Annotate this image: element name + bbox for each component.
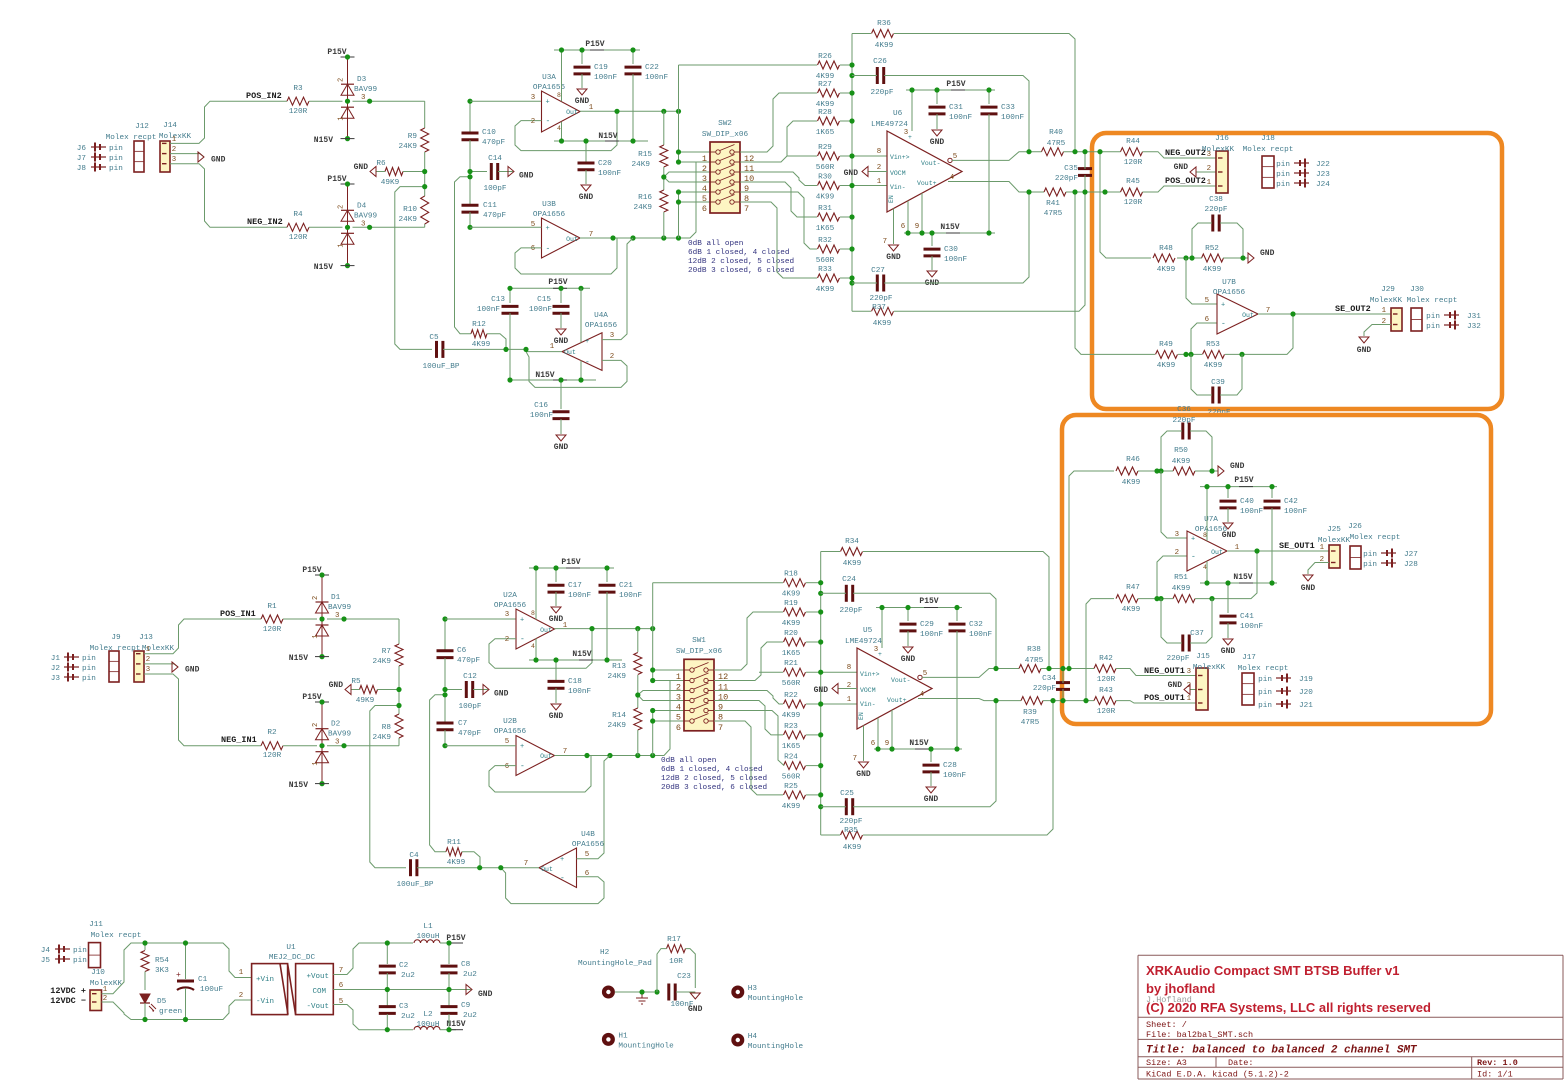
resistor R3 [287, 85, 309, 116]
wire R15 to R16 [663, 167, 665, 190]
svg-text:6: 6 [871, 740, 875, 748]
svg-text:220pF: 220pF [1033, 685, 1056, 693]
svg-text:NEG_IN2: NEG_IN2 [247, 217, 283, 227]
svg-text:R38: R38 [1027, 646, 1041, 654]
svg-text:GND: GND [930, 138, 945, 147]
wire C18 to GND [555, 688, 557, 703]
svg-text:4K99: 4K99 [843, 560, 862, 568]
wire R31 right [840, 216, 852, 218]
ground at C29 [901, 647, 916, 664]
svg-text:GND: GND [688, 1005, 703, 1014]
capacitor C37 [1166, 630, 1204, 663]
ground at C19 [575, 89, 590, 106]
svg-text:6: 6 [339, 982, 343, 990]
svg-text:GND: GND [575, 97, 590, 106]
junctions C column [467, 99, 472, 230]
svg-text:pin: pin [1276, 161, 1290, 169]
ground at J14 [198, 152, 226, 165]
svg-text:pin: pin [73, 957, 87, 965]
svg-text:R46: R46 [1126, 456, 1140, 464]
wire U4B feedback [501, 868, 604, 904]
wire N15V rail U7A [1200, 582, 1277, 584]
capacitor C38 [1204, 196, 1227, 232]
power P15V output [446, 934, 465, 943]
svg-text:R29: R29 [818, 144, 832, 152]
pin number U2B.6 [505, 763, 509, 771]
svg-text:3: 3 [531, 94, 535, 102]
wire GND to R6 [376, 171, 385, 173]
junctions R46 R50 [1154, 468, 1214, 473]
capacitor C39 [1207, 379, 1230, 417]
pin number U7B.5 [1205, 297, 1209, 305]
pin J27 [1363, 549, 1418, 560]
svg-text:4K99: 4K99 [873, 320, 892, 328]
svg-text:+: + [908, 134, 912, 141]
svg-text:C39: C39 [1211, 379, 1225, 387]
wire R53 right [1225, 353, 1248, 355]
svg-text:100nF: 100nF [1240, 623, 1263, 631]
resistor R25 [782, 783, 806, 811]
svg-text:SW2: SW2 [718, 120, 732, 128]
svg-text:R50: R50 [1174, 447, 1188, 455]
power N15V rail U4A [535, 371, 567, 380]
power P15V at D3 [327, 48, 354, 57]
wire N15V rail U3A [554, 140, 648, 142]
wire POS to R7 [398, 619, 400, 644]
svg-text:120R: 120R [1124, 199, 1143, 207]
ground at C16 [554, 435, 569, 452]
power P15V rail U4A [548, 278, 567, 288]
power N15V rail U3A [598, 132, 619, 141]
svg-text:+: + [1191, 536, 1195, 544]
svg-text:J3: J3 [51, 675, 61, 683]
svg-text:2: 2 [239, 992, 243, 1000]
DIP switch SW2 [702, 120, 754, 214]
wire SW1 pin6 [653, 720, 684, 722]
svg-text:VOCM: VOCM [890, 170, 906, 177]
pin number U6.7 [883, 238, 887, 246]
capacitor C2 [379, 962, 415, 980]
svg-text:100nF: 100nF [1001, 114, 1024, 122]
svg-text:1: 1 [1320, 544, 1325, 552]
capacitor C26 [870, 58, 893, 97]
wire U5 pin9 down [891, 710, 893, 749]
svg-text:49K9: 49K9 [356, 697, 375, 705]
resistor R46 [1116, 456, 1141, 487]
wire R52 to GND [1223, 257, 1248, 259]
svg-text:MolexKK: MolexKK [1193, 664, 1226, 672]
junctions U2B out [584, 753, 655, 758]
junctions bank column [849, 62, 854, 285]
wire C24 left [821, 592, 846, 594]
net label NEG_IN1 [221, 735, 257, 745]
svg-text:J7: J7 [77, 155, 87, 163]
svg-text:6dB 1 closed, 4 closed: 6dB 1 closed, 4 closed [688, 249, 790, 257]
svg-text:File: bal2bal_SMT.sch: File: bal2bal_SMT.sch [1146, 1030, 1253, 1040]
connector J15 [1193, 653, 1226, 710]
wire C12 to GND [473, 689, 488, 691]
pin J6 [77, 143, 123, 154]
svg-text:Molex recpt: Molex recpt [1350, 534, 1401, 542]
resistor R40 [1042, 129, 1066, 156]
pin J5 [41, 955, 87, 966]
wire C22 to N15V [632, 74, 634, 141]
wire U4A out [526, 351, 562, 353]
wire P15V rail U3A [554, 49, 640, 51]
wire R27 right [840, 92, 852, 94]
svg-text:470pF: 470pF [458, 730, 481, 738]
svg-text:R17: R17 [667, 936, 681, 944]
wire [309, 226, 343, 228]
svg-text:H3: H3 [748, 985, 758, 993]
wire J14 pin2 to GND [170, 154, 204, 157]
svg-text:Vin-: Vin- [860, 701, 876, 708]
wire C3 down [386, 1014, 388, 1030]
resistor R12 [471, 321, 491, 349]
svg-text:Out: Out [540, 753, 552, 760]
svg-text:J27: J27 [1404, 551, 1418, 559]
wire [283, 745, 317, 747]
svg-text:7: 7 [744, 204, 749, 214]
svg-text:+Vout: +Vout [306, 973, 329, 981]
wire to R29 [787, 155, 817, 157]
svg-text:Vout-: Vout- [891, 677, 911, 684]
svg-text:N15V: N15V [535, 371, 554, 380]
svg-text:C20: C20 [598, 160, 612, 168]
wire R37 right loop [894, 192, 1085, 311]
pin number U5.8 [847, 664, 851, 672]
wire C37 left loop [1161, 599, 1182, 643]
svg-text:GND: GND [549, 712, 564, 721]
label 12VDC+ [50, 986, 86, 996]
wire R45 to J16 pin1 [1143, 186, 1217, 192]
svg-text:2u2: 2u2 [401, 1013, 415, 1021]
svg-text:470pF: 470pF [483, 212, 506, 220]
wire rail to R54 [144, 943, 146, 950]
svg-text:220pF: 220pF [839, 818, 862, 826]
wire U5 pin7 down [863, 726, 865, 762]
wire C5 to U4A out [443, 348, 526, 350]
wire NEG_OUT1 to R46 [1069, 471, 1114, 669]
wire SW2 pin11 to R28 [740, 121, 817, 162]
net label POS_IN1 [220, 609, 256, 619]
wire C34 bottom lead [1062, 689, 1064, 701]
junctions R48 R52 [1183, 255, 1245, 260]
wire NEG to U2B pin5 [445, 745, 516, 747]
diode D4 [338, 181, 378, 268]
wire C2 to C3 [386, 973, 388, 1006]
wire R12 to out node [487, 334, 506, 350]
pin number U6.8 [877, 148, 881, 156]
wire U1 COM to GND [333, 989, 471, 991]
resistor R24 [782, 754, 806, 782]
op-amp U7A [1187, 516, 1240, 571]
svg-text:4K99: 4K99 [1203, 266, 1222, 274]
svg-text:6: 6 [676, 723, 681, 733]
net label SE_OUT2 [1335, 304, 1371, 314]
pin number U5.4 [920, 691, 925, 699]
svg-text:GND: GND [901, 655, 916, 664]
wire [327, 745, 399, 747]
svg-text:J4: J4 [41, 947, 51, 955]
wire U4A pin3 up [602, 238, 633, 340]
svg-text:100nF: 100nF [949, 114, 972, 122]
wire [327, 618, 399, 620]
diode D3 [338, 54, 378, 141]
svg-text:N15V: N15V [598, 132, 617, 141]
pin J28 [1363, 559, 1418, 570]
wire to C2 [386, 943, 388, 964]
svg-text:C4: C4 [409, 852, 419, 860]
svg-text:GND: GND [1222, 531, 1237, 540]
wire R11 to out node [462, 852, 480, 868]
svg-text:7: 7 [883, 238, 887, 246]
pin number U7A.2 [1175, 549, 1179, 557]
wire bank right at 794.9 [806, 794, 821, 796]
diode D2 [312, 699, 351, 786]
resistor R41 [1044, 188, 1066, 218]
wire U7B out to J29 [1258, 313, 1391, 315]
svg-text:GND: GND [886, 253, 901, 262]
ground COM [466, 985, 493, 1000]
wire C30 to GND [931, 256, 933, 270]
svg-text:R10: R10 [403, 206, 417, 214]
svg-text:0dB all open: 0dB all open [661, 757, 716, 765]
svg-text:24K9: 24K9 [608, 673, 627, 681]
highlight box channel 1 output [1062, 415, 1491, 724]
svg-text:560R: 560R [782, 680, 801, 688]
resistor R47 [1116, 584, 1141, 614]
wire C34 top lead [1062, 669, 1064, 684]
svg-text:R49: R49 [1159, 341, 1173, 349]
svg-text:C8: C8 [461, 961, 471, 969]
svg-text:P15V: P15V [561, 558, 580, 567]
svg-text:P15V: P15V [919, 597, 938, 606]
ground at C18 [549, 704, 564, 721]
resistor R37 [872, 304, 894, 328]
capacitor C42 [1264, 498, 1308, 516]
pin J24 [1276, 179, 1330, 190]
resistor R1 [261, 603, 283, 634]
power P15V at D4 [327, 175, 354, 184]
svg-text:100uF: 100uF [200, 986, 223, 994]
svg-text:6: 6 [901, 223, 905, 231]
junctions R column [422, 169, 427, 189]
svg-text:1K65: 1K65 [782, 743, 801, 751]
pin number U5.2 [847, 682, 851, 690]
wire [353, 100, 425, 102]
wire R14 to U2B out [637, 730, 639, 756]
svg-text:4K99: 4K99 [1157, 362, 1176, 370]
svg-text:8: 8 [877, 148, 881, 156]
svg-text:Out: Out [566, 236, 578, 243]
svg-text:R18: R18 [784, 571, 798, 579]
svg-text:100nF: 100nF [594, 74, 617, 82]
svg-text:J29: J29 [1381, 286, 1395, 294]
svg-text:1: 1 [847, 696, 852, 704]
wire U3A V- pin4 [561, 122, 563, 141]
svg-text:GND: GND [554, 443, 569, 452]
wire rail to C17 [555, 568, 557, 582]
svg-text:6: 6 [1205, 316, 1209, 324]
note gain table bottom [661, 757, 767, 792]
pin number U7B.6 [1205, 316, 1209, 324]
svg-text:100nF: 100nF [1284, 508, 1307, 516]
svg-text:1: 1 [1207, 179, 1212, 187]
resistor R18 [782, 571, 806, 599]
wire [309, 100, 343, 102]
resistor R50 [1172, 447, 1195, 475]
ground at C14 [508, 167, 534, 181]
wire L1 to P15V [440, 942, 456, 944]
wire U2A feedback loop [489, 629, 592, 669]
svg-text:C33: C33 [1001, 104, 1015, 112]
svg-text:OPA1656: OPA1656 [533, 84, 566, 92]
note gain table top [688, 240, 794, 275]
svg-text:POS_OUT2: POS_OUT2 [1165, 176, 1206, 186]
wire U4B pin5 up [577, 756, 611, 859]
ground at R52 [1248, 249, 1275, 263]
wire bank right at 765.6 [806, 765, 821, 767]
title text id [1477, 1070, 1513, 1080]
net label NEG_OUT1 [1144, 666, 1185, 676]
capacitor C16 [530, 402, 570, 420]
svg-text:100uF_BP: 100uF_BP [423, 363, 460, 371]
svg-text:+: + [1221, 302, 1225, 310]
svg-text:1: 1 [146, 646, 151, 654]
pin number U6.4 [950, 174, 955, 182]
svg-text:pin: pin [1258, 702, 1272, 710]
wire to U3A pin3 [470, 100, 542, 102]
wire U2B output [555, 755, 659, 757]
wire U1 +Vout to L1 [333, 943, 387, 975]
wire C1 to rail [185, 988, 187, 1020]
wire column to C5 [395, 187, 432, 350]
pin number U6.9 [915, 223, 919, 231]
pin number U5.5 [923, 670, 927, 678]
svg-text:R7: R7 [382, 648, 392, 656]
power N15V at D1 [289, 654, 329, 663]
svg-text:4K99: 4K99 [782, 620, 801, 628]
wire R40 to R44 [1064, 151, 1121, 153]
svg-text:Out: Out [1211, 549, 1223, 556]
pin J2 [51, 663, 96, 674]
wire R46 to R50 [1138, 470, 1173, 472]
svg-text:N15V: N15V [909, 739, 928, 748]
wire C21 to N15V [606, 592, 608, 660]
wire R39 to R43 [1043, 700, 1094, 702]
ground at C17 [549, 607, 564, 624]
svg-text:C31: C31 [949, 104, 963, 112]
svg-text:5: 5 [676, 713, 681, 723]
capacitor C9 [441, 1002, 478, 1020]
resistor R44 [1121, 138, 1143, 167]
svg-text:7: 7 [524, 860, 528, 868]
wire SW2 pins56 to out [678, 192, 680, 238]
wire N15V rail U5 [874, 748, 962, 750]
wire U6 pin3 to P15V [911, 90, 913, 131]
wire POS_OUT1 to R47 [1086, 599, 1114, 701]
svg-text:EN: EN [888, 195, 895, 203]
title block frame [1138, 955, 1563, 1079]
resistor R19 [782, 600, 806, 628]
svg-text:560R: 560R [816, 257, 835, 265]
pin numbers J29 [1382, 307, 1387, 326]
svg-text:U5: U5 [863, 627, 873, 635]
svg-text:100nF: 100nF [529, 306, 552, 314]
svg-text:GND: GND [1174, 163, 1189, 172]
pin number U4A.1 [550, 343, 555, 351]
connector J26 [1348, 523, 1400, 569]
wire C35 bottom lead [1084, 175, 1086, 192]
wire C16 to GND [560, 419, 562, 434]
wire J10 pin2 to U1 -Vin [102, 1000, 252, 1020]
ground at C30 [925, 271, 940, 288]
svg-text:C29: C29 [920, 621, 934, 629]
svg-text:+: + [546, 225, 550, 233]
svg-text:2u2: 2u2 [463, 1012, 477, 1020]
svg-text:MolexKK: MolexKK [1370, 297, 1403, 305]
svg-text:49K9: 49K9 [381, 179, 400, 187]
junctions output lines [1026, 149, 1107, 195]
junctions output filter [385, 940, 452, 1032]
connector J29 [1370, 286, 1403, 331]
svg-text:47R5: 47R5 [1047, 140, 1066, 148]
svg-text:3: 3 [335, 612, 339, 620]
wire rail to C28 [930, 749, 932, 762]
connector J30 [1407, 286, 1458, 331]
svg-text:pin: pin [73, 947, 87, 955]
wire C33 to N15V [988, 114, 990, 233]
svg-text:R36: R36 [877, 20, 891, 28]
svg-text:100nF: 100nF [944, 256, 967, 264]
wire C14 node to R12 [455, 177, 472, 334]
power P15V rail U5 [919, 597, 938, 608]
svg-text:J12: J12 [135, 123, 149, 131]
pin numbers J25 [1320, 544, 1325, 564]
labels R54 [155, 957, 169, 975]
svg-text:C17: C17 [568, 582, 582, 590]
svg-text:1: 1 [239, 969, 244, 977]
wire C39 left loop [1191, 354, 1212, 395]
capacitor C11 [462, 202, 507, 220]
svg-text:U4A: U4A [594, 312, 608, 320]
svg-text:3: 3 [172, 156, 176, 164]
svg-text:3: 3 [505, 611, 509, 619]
svg-text:GND: GND [924, 795, 939, 804]
wire P15V rail U6 [906, 89, 995, 91]
power N15V output [446, 1020, 465, 1030]
svg-text:100nF: 100nF [568, 688, 591, 696]
svg-text:Rev: 1.0: Rev: 1.0 [1477, 1058, 1518, 1068]
junctions SW1 left [635, 667, 655, 723]
svg-text:3: 3 [146, 666, 150, 674]
wire POS to R49 [1075, 192, 1155, 354]
svg-text:47R5: 47R5 [1025, 657, 1044, 665]
ground at C40 [1222, 523, 1237, 540]
diode D1 [312, 572, 351, 659]
svg-text:R15: R15 [638, 151, 652, 159]
svg-text:C35: C35 [1064, 165, 1078, 173]
pin J4 [41, 945, 87, 956]
capacitor C32 [949, 621, 993, 639]
svg-text:VOCM: VOCM [860, 687, 876, 694]
resistor R42 [1094, 655, 1116, 684]
resistor R54 [141, 951, 149, 972]
ground at J16 [1174, 163, 1196, 177]
svg-text:R47: R47 [1126, 584, 1140, 592]
wire bank junction column bottom [820, 552, 822, 836]
